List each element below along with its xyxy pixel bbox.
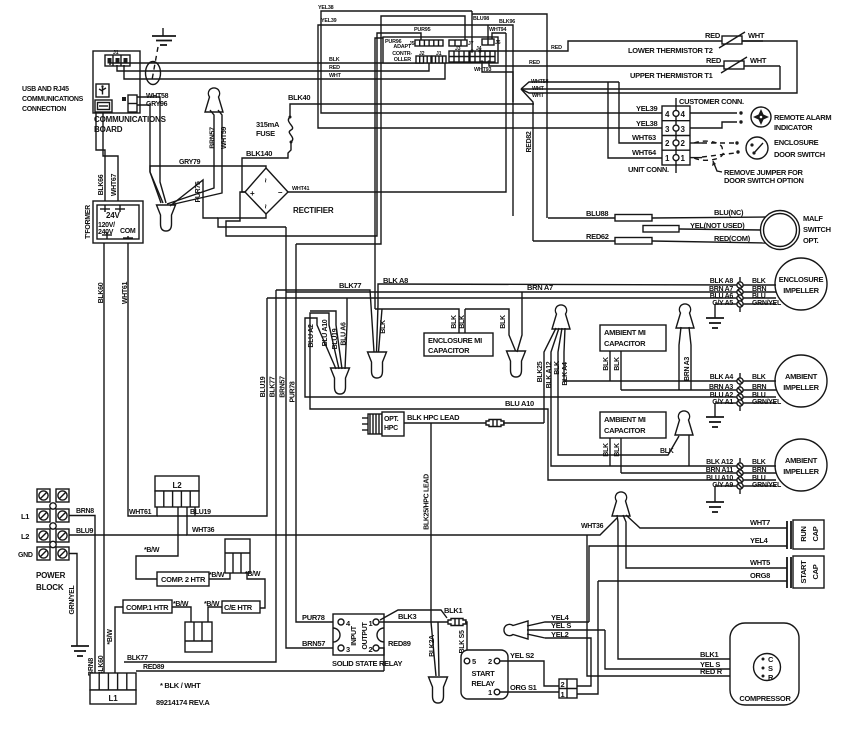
capacitor enclosure MI xyxy=(424,315,493,356)
svg-text:RELAY: RELAY xyxy=(471,679,495,688)
wire BLK77 vertical xyxy=(124,290,277,662)
wire row2 dashed to door switch xyxy=(690,142,702,144)
wire WHT94 (J6) xyxy=(489,27,506,39)
connector G/Y A9 + ground xyxy=(706,482,782,512)
svg-text:~: ~ xyxy=(261,204,270,209)
svg-text:T'FORMER: T'FORMER xyxy=(85,205,92,239)
svg-text:GRY79: GRY79 xyxy=(179,159,201,166)
wire BLK (comms bus) xyxy=(110,57,423,65)
svg-text:PUR95: PUR95 xyxy=(414,27,431,33)
svg-text:BLU(NC): BLU(NC) xyxy=(714,208,744,217)
svg-text:YEL38: YEL38 xyxy=(318,5,334,11)
wire BLK3 xyxy=(379,612,449,622)
svg-text:WHT: WHT xyxy=(750,56,767,65)
wire COMP1 to lower overload (*B/W) xyxy=(172,601,191,622)
connector G/Y A5 + ground xyxy=(706,300,782,328)
heater COMP. 2 HTR xyxy=(157,572,209,586)
svg-text:YEL39: YEL39 xyxy=(636,104,658,113)
wire WHT63 xyxy=(619,82,662,143)
svg-text:BRN8: BRN8 xyxy=(76,508,94,515)
nut H xyxy=(675,411,693,435)
svg-text:OPT.: OPT. xyxy=(803,236,819,245)
wire BLU A6 xyxy=(267,298,737,369)
wire WHT67 xyxy=(103,113,118,201)
svg-text:BLU A2: BLU A2 xyxy=(308,324,315,348)
svg-text:WHT36: WHT36 xyxy=(581,523,604,530)
connector J1 xyxy=(432,51,446,63)
svg-text:BLK: BLK xyxy=(614,443,621,457)
svg-text:BLK77: BLK77 xyxy=(270,376,277,397)
solid state relay K1 xyxy=(332,614,402,668)
connector J1 (comms) xyxy=(105,50,130,66)
wire COMP2 to overload (*B/W) xyxy=(209,572,230,579)
svg-text:BLK A8: BLK A8 xyxy=(710,278,734,285)
wire row4 to alarm xyxy=(690,112,737,114)
wire BLU88 / BLU(NC) xyxy=(548,208,773,221)
svg-text:BRN57: BRN57 xyxy=(280,376,287,398)
connector chain (ambient 1) xyxy=(739,373,741,411)
connector J4 xyxy=(470,46,495,62)
svg-text:1: 1 xyxy=(369,619,373,628)
svg-text:WHT93: WHT93 xyxy=(474,67,491,73)
svg-text:BLU A10: BLU A10 xyxy=(505,399,534,408)
wire BRN57 (from nut A) xyxy=(167,110,217,204)
svg-text:BLK: BLK xyxy=(752,374,766,381)
wire BRN57 vertical xyxy=(280,227,338,648)
svg-text:IMPELLER: IMPELLER xyxy=(783,467,819,476)
svg-text:RED: RED xyxy=(329,65,340,71)
svg-text:WHT36: WHT36 xyxy=(192,527,215,534)
svg-text:WHT: WHT xyxy=(748,31,765,40)
svg-text:BLK: BLK xyxy=(614,357,621,371)
svg-text:BLK: BLK xyxy=(752,278,766,285)
wire BLK1 (nut K to compressor C) xyxy=(617,515,764,659)
svg-text:SOLID STATE RELAY: SOLID STATE RELAY xyxy=(332,659,402,668)
svg-text:WHT59: WHT59 xyxy=(221,126,228,149)
svg-text:GRY96: GRY96 xyxy=(146,101,168,108)
capacitor ambient MI 1 xyxy=(600,325,666,390)
wire J6 stub to YEL39 loop xyxy=(487,25,489,39)
svg-text:+: + xyxy=(250,189,255,198)
wire nut B xyxy=(157,205,176,231)
svg-text:GND: GND xyxy=(18,552,33,559)
svg-text:RED: RED xyxy=(706,56,722,65)
wire RED69 xyxy=(136,664,384,671)
svg-text:BLK40: BLK40 xyxy=(288,93,310,102)
wire GRY96 xyxy=(137,101,168,203)
wire BRN A7 xyxy=(286,283,737,292)
wire row1 dashed to door switch xyxy=(690,157,702,159)
svg-text:BRN: BRN xyxy=(752,467,767,474)
heater C/E HTR xyxy=(222,601,260,613)
motor ambient impeller 1 xyxy=(775,355,827,407)
svg-text:PUR78: PUR78 xyxy=(302,613,325,622)
nut C xyxy=(331,368,350,394)
connector BRN A7 xyxy=(709,286,776,295)
rectifier D1 xyxy=(245,168,334,215)
svg-text:BLK: BLK xyxy=(451,315,458,329)
wire BLK140 xyxy=(242,142,291,192)
svg-text:RED89: RED89 xyxy=(143,664,164,671)
svg-text:PUR75: PUR75 xyxy=(195,181,202,202)
svg-text:RED: RED xyxy=(551,45,562,51)
label controller name xyxy=(392,44,412,63)
svg-text:COMP.1 HTR: COMP.1 HTR xyxy=(126,603,169,612)
svg-text:L1: L1 xyxy=(109,694,119,703)
wire RED R riser xyxy=(587,535,764,676)
svg-text:BLU: BLU xyxy=(752,293,766,300)
svg-text:BLK60: BLK60 xyxy=(98,282,105,303)
svg-text:INDICATOR: INDICATOR xyxy=(774,123,813,132)
svg-text:BLK25: BLK25 xyxy=(537,361,544,382)
wire BLK A8 xyxy=(377,276,738,352)
svg-text:BRN: BRN xyxy=(752,286,767,293)
svg-text:WHT5: WHT5 xyxy=(750,558,770,567)
wire lower overload to C/E (*B/W) xyxy=(204,601,222,622)
nut D xyxy=(368,352,387,378)
RJ45 port icon xyxy=(95,100,112,112)
svg-text:BLK66: BLK66 xyxy=(98,174,105,195)
svg-text:BLK96: BLK96 xyxy=(499,19,515,25)
svg-text:BLU A10: BLU A10 xyxy=(706,475,733,482)
connector 2/1 xyxy=(559,679,577,699)
svg-text:WHT63: WHT63 xyxy=(632,133,656,142)
svg-text:WHT94: WHT94 xyxy=(489,27,506,33)
wire GND / GRN/YEL xyxy=(69,554,89,657)
svg-text:USB AND RJ45: USB AND RJ45 xyxy=(22,86,69,93)
wire RED (J4 to T1) xyxy=(487,60,725,66)
wire YEL39 loop xyxy=(318,18,662,128)
svg-text:GRN/YEL: GRN/YEL xyxy=(752,482,782,489)
connector J7 xyxy=(449,40,474,47)
svg-text:AMBIENT: AMBIENT xyxy=(785,372,818,381)
svg-text:BLU19: BLU19 xyxy=(332,328,339,349)
wire RED89 xyxy=(379,639,411,671)
overload block lower xyxy=(185,622,212,652)
svg-text:DOOR SWITCH OPTION: DOOR SWITCH OPTION xyxy=(724,176,804,185)
svg-text:BRN57: BRN57 xyxy=(302,639,325,648)
connector BRN A3 wire xyxy=(621,384,776,393)
svg-text:CAPACITOR: CAPACITOR xyxy=(604,339,646,348)
svg-text:WHT58: WHT58 xyxy=(146,93,169,100)
wire YEL S (to compressor) xyxy=(605,630,764,669)
wire overload to C/E HTR (*B/W) xyxy=(245,571,265,608)
svg-text:SWITCH: SWITCH xyxy=(803,225,831,234)
svg-text:C/E HTR: C/E HTR xyxy=(224,603,253,612)
svg-text:*B/W: *B/W xyxy=(209,572,225,579)
svg-text:GRN/YEL: GRN/YEL xyxy=(752,399,782,406)
svg-text:24V: 24V xyxy=(106,211,120,220)
wire WHT7 xyxy=(626,515,787,528)
wire BLK A12 (nut F) xyxy=(546,328,737,466)
wire WHT58 xyxy=(137,93,169,203)
svg-text:315mA: 315mA xyxy=(256,120,280,129)
svg-text:RECTIFIER: RECTIFIER xyxy=(293,206,334,215)
svg-text:BLK1: BLK1 xyxy=(444,606,463,615)
svg-text:YEL S2: YEL S2 xyxy=(510,651,534,660)
svg-text:BLU9: BLU9 xyxy=(76,528,93,535)
svg-text:CONNECTION: CONNECTION xyxy=(22,106,66,113)
connector G/Y A1 + ground xyxy=(706,399,782,427)
wire WHT36 xyxy=(187,507,617,535)
svg-text:WHT61: WHT61 xyxy=(129,509,152,516)
wire BLU98 (J3 top loop) xyxy=(470,11,547,218)
wire T1 right return xyxy=(744,65,780,67)
svg-text:BOARD: BOARD xyxy=(94,125,123,134)
svg-text:COMP. 2 HTR: COMP. 2 HTR xyxy=(161,575,206,584)
svg-text:S: S xyxy=(768,664,773,673)
svg-text:2: 2 xyxy=(488,657,492,666)
wire PUR75 xyxy=(170,180,218,218)
connector BLU A10 xyxy=(706,475,776,483)
wire BRN8 xyxy=(69,508,95,676)
jumper loop (dashed) xyxy=(694,141,723,160)
wire YEL4 xyxy=(589,536,787,622)
svg-text:REMOTE ALARM: REMOTE ALARM xyxy=(774,113,831,122)
wire GRY79 xyxy=(150,159,266,203)
start relay K2 xyxy=(461,650,508,699)
svg-text:BRN A11: BRN A11 xyxy=(706,467,734,474)
svg-text:BLU A6: BLU A6 xyxy=(341,322,348,346)
wire YEL(NOT USED) xyxy=(643,221,773,232)
svg-text:BLK77: BLK77 xyxy=(127,655,148,662)
wire BLK77 horizontal to nut D xyxy=(276,281,374,352)
connector J6 xyxy=(482,39,501,46)
wire PUR96 riser xyxy=(375,38,383,309)
svg-text:RED(COM): RED(COM) xyxy=(714,234,751,243)
svg-text:CAPACITOR: CAPACITOR xyxy=(428,346,470,355)
svg-text:RED89: RED89 xyxy=(388,639,411,648)
power block TB1 xyxy=(18,489,69,592)
connector customer/unit conn xyxy=(662,98,690,173)
svg-text:ENCLOSURE: ENCLOSURE xyxy=(774,138,819,147)
svg-text:BLK: BLK xyxy=(660,448,674,455)
capacitor RUN CAP xyxy=(787,520,824,549)
svg-text:WHT: WHT xyxy=(329,73,342,79)
svg-text:BLU A10: BLU A10 xyxy=(322,319,329,346)
connector chain (ambient 2) xyxy=(739,458,741,494)
wire BLK66 xyxy=(96,113,105,201)
wire YEL2 return xyxy=(545,638,591,686)
terminal block L1 xyxy=(90,673,136,704)
svg-text:*B/W: *B/W xyxy=(245,571,261,578)
svg-text:BLK A4: BLK A4 xyxy=(562,362,569,386)
svg-text:CAPACITOR: CAPACITOR xyxy=(604,426,646,435)
svg-text:J7: J7 xyxy=(468,41,474,47)
svg-text:BLK1: BLK1 xyxy=(700,650,719,659)
wire BLK60 xyxy=(98,243,105,676)
svg-text:WHT: WHT xyxy=(532,93,545,99)
wire L2 cell3 to COMP2 HTR (*B/W) xyxy=(136,507,178,579)
svg-text:BLU A6: BLU A6 xyxy=(710,293,734,300)
svg-text:*B/W: *B/W xyxy=(204,601,220,608)
capacitor START CAP xyxy=(787,556,824,588)
connector BLK A12 xyxy=(706,459,776,469)
svg-text:*B/W: *B/W xyxy=(144,547,160,554)
svg-text:BLK2A: BLK2A xyxy=(429,635,436,657)
svg-text:BLK A12: BLK A12 xyxy=(546,361,553,388)
svg-text:5: 5 xyxy=(472,657,476,666)
connector BLK A4 xyxy=(710,374,776,384)
connector BLK A8 xyxy=(710,278,776,288)
label: COMMUNICATIONS BOARD xyxy=(94,115,167,134)
wire BLK S5 xyxy=(459,622,467,659)
svg-text:*B/W: *B/W xyxy=(107,629,114,645)
ground (chassis, dashed) xyxy=(152,28,176,80)
svg-text:WHT: WHT xyxy=(532,86,545,92)
svg-text:J5: J5 xyxy=(409,41,415,47)
wire nut H to BLK A12 xyxy=(688,435,690,466)
remote alarm indicator xyxy=(751,107,831,132)
svg-text:L2: L2 xyxy=(173,481,183,490)
wire YEL4 fan xyxy=(527,613,589,626)
svg-text:UPPER THERMISTOR T1: UPPER THERMISTOR T1 xyxy=(630,71,713,80)
svg-text:2: 2 xyxy=(369,645,373,654)
nut F xyxy=(552,305,570,329)
svg-text:BLU A2: BLU A2 xyxy=(710,392,734,399)
note remove jumper xyxy=(712,161,804,185)
connector J5 xyxy=(409,40,443,47)
capacitor ambient MI 2 xyxy=(600,412,666,473)
svg-text:GRN/YEL: GRN/YEL xyxy=(752,300,782,307)
svg-text:CAP: CAP xyxy=(811,526,820,541)
wire BLU19 vertical xyxy=(157,298,267,516)
svg-text:BLU19: BLU19 xyxy=(190,509,211,516)
communications board U1 xyxy=(93,51,140,113)
svg-text:IMPELLER: IMPELLER xyxy=(783,383,819,392)
svg-text:BLK: BLK xyxy=(500,315,507,329)
wire WHT (comms bus) xyxy=(124,62,445,79)
connector J2 xyxy=(416,51,431,63)
svg-text:* BLK / WHT: * BLK / WHT xyxy=(160,681,201,690)
svg-text:BLK: BLK xyxy=(380,320,387,334)
svg-text:BLK77: BLK77 xyxy=(339,281,361,290)
wire BLU A10 xyxy=(310,313,737,480)
wire BLK40 xyxy=(288,93,534,117)
svg-text:YEL(NOT USED): YEL(NOT USED) xyxy=(690,221,745,230)
svg-text:BLK: BLK xyxy=(603,357,610,371)
wire BLK HPC LEAD xyxy=(404,413,487,423)
svg-text:YEL2: YEL2 xyxy=(551,630,569,639)
svg-text:START: START xyxy=(472,669,496,678)
svg-text:BLOCK: BLOCK xyxy=(36,583,64,592)
USB port icon xyxy=(96,84,109,97)
wire WHT93 (J4 to WHT63) xyxy=(474,60,513,216)
svg-text:YEL38: YEL38 xyxy=(636,119,658,128)
svg-text:BLK HPC LEAD: BLK HPC LEAD xyxy=(407,413,460,422)
svg-text:YEL4: YEL4 xyxy=(750,536,769,545)
svg-text:DOOR SWITCH: DOOR SWITCH xyxy=(774,150,825,159)
wire nut A xyxy=(205,88,223,112)
svg-text:AMBIENT MI: AMBIENT MI xyxy=(604,415,646,424)
wire ORG S1 xyxy=(500,683,559,692)
svg-text:3: 3 xyxy=(346,645,350,654)
svg-text:J6: J6 xyxy=(495,40,501,46)
svg-text:FUSE: FUSE xyxy=(256,129,275,138)
svg-text:BLK: BLK xyxy=(459,315,466,329)
thermistor T2 xyxy=(628,31,765,55)
svg-text:PUR78: PUR78 xyxy=(290,381,297,402)
svg-text:BRN: BRN xyxy=(752,384,767,391)
wire PUR78 vertical xyxy=(290,244,338,622)
svg-text:GRN/YEL: GRN/YEL xyxy=(69,584,76,614)
wire BLK2A xyxy=(429,622,439,676)
wire rectifier ~ to BRN57 xyxy=(218,214,286,227)
connector BLU A6 xyxy=(710,293,776,301)
nut E xyxy=(507,351,526,377)
svg-text:BRN A3: BRN A3 xyxy=(709,384,733,391)
svg-text:BRN A7: BRN A7 xyxy=(709,286,733,293)
compressor M1 xyxy=(730,623,799,705)
malf switch S1 xyxy=(761,211,831,250)
svg-text:YEL S: YEL S xyxy=(551,621,571,630)
svg-text:120V/: 120V/ xyxy=(98,222,115,229)
wire BLK A4 (nut F) xyxy=(562,328,737,386)
wire WHT41 xyxy=(288,33,506,192)
wire ORG8 xyxy=(598,571,787,581)
svg-text:2: 2 xyxy=(561,680,565,689)
node fan WHT58/WHT/WHT xyxy=(521,41,797,99)
ferrite bead xyxy=(146,62,161,85)
svg-text:BLK A8: BLK A8 xyxy=(383,276,408,285)
svg-text:1: 1 xyxy=(561,690,565,699)
wire COMP1 left (*B/W) xyxy=(107,607,123,673)
svg-text:WHT64: WHT64 xyxy=(632,148,657,157)
svg-text:BLU19: BLU19 xyxy=(260,376,267,397)
svg-text:ENCLOSURE MI: ENCLOSURE MI xyxy=(428,336,482,345)
motor enclosure impeller xyxy=(775,258,827,310)
svg-text:IMPELLER: IMPELLER xyxy=(783,286,819,295)
svg-text:ORG S1: ORG S1 xyxy=(510,683,537,692)
connector BRN A11 xyxy=(621,467,776,476)
wire ORG8 return xyxy=(577,581,598,694)
svg-text:RED: RED xyxy=(529,60,540,66)
svg-text:~: ~ xyxy=(261,178,270,183)
svg-text:R: R xyxy=(768,673,774,682)
wire to BLK25 xyxy=(503,422,544,424)
svg-text:WHT67: WHT67 xyxy=(111,173,118,196)
wire YEL2 fan xyxy=(527,630,569,639)
svg-text:BLK: BLK xyxy=(554,361,561,375)
svg-text:AMBIENT: AMBIENT xyxy=(785,456,818,465)
fuse F1 315mA xyxy=(256,116,293,144)
heater COMP.1 HTR xyxy=(123,600,172,613)
svg-text:AMBIENT MI: AMBIENT MI xyxy=(604,328,646,337)
svg-text:ORG8: ORG8 xyxy=(750,571,770,580)
svg-text:CUSTOMER CONN.: CUSTOMER CONN. xyxy=(679,97,744,106)
svg-text:RED82: RED82 xyxy=(526,131,533,152)
nut J (sideways) xyxy=(504,621,528,639)
wire BLK (nut F to nut H) xyxy=(554,328,679,455)
svg-text:WHT7: WHT7 xyxy=(750,518,770,527)
svg-text:RED62: RED62 xyxy=(586,232,609,241)
svg-text:INPUT: INPUT xyxy=(351,625,358,646)
svg-text:UNIT CONN.: UNIT CONN. xyxy=(628,165,669,174)
splice (HPC lead) xyxy=(486,420,504,427)
svg-text:POWER: POWER xyxy=(36,571,66,580)
svg-text:OPT.: OPT. xyxy=(384,416,399,423)
svg-text:START: START xyxy=(799,560,808,584)
svg-text:BLK A12: BLK A12 xyxy=(706,459,733,466)
terminal block L2 xyxy=(155,476,199,507)
wire YEL S fan xyxy=(527,621,605,630)
svg-text:YEL39: YEL39 xyxy=(321,18,337,24)
wire WHT59 (from nut A) xyxy=(170,110,228,205)
svg-text:LOWER THERMISTOR T2: LOWER THERMISTOR T2 xyxy=(628,46,713,55)
svg-text:BLK A4: BLK A4 xyxy=(710,374,734,381)
switch OPT HPC xyxy=(362,412,404,436)
svg-text:BLU98: BLU98 xyxy=(473,16,489,22)
